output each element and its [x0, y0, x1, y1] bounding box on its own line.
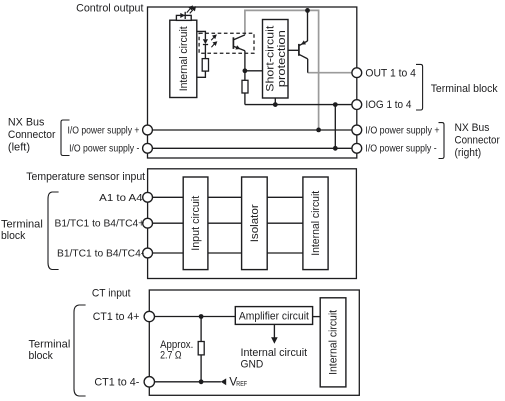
terminal: B-	[143, 248, 153, 258]
wires: input circuit to isolator	[208, 196, 242, 198]
wire: IOG to I/O power -	[334, 105, 336, 149]
svg-text:I/O power supply +: I/O power supply +	[68, 125, 140, 136]
wire: junction down to R2	[244, 71, 246, 81]
node: IOG to power- junction	[333, 102, 338, 107]
svg-text:CT1 to 4+: CT1 to 4+	[93, 311, 140, 323]
temp sensor outer box	[148, 169, 357, 279]
bracket: CT terminal block	[74, 305, 86, 396]
arrow: amplifier to internal circuit GND	[273, 324, 275, 338]
wire: junction to short-circuit box	[245, 70, 263, 72]
svg-text:(left): (left)	[8, 142, 30, 154]
terminal: right I/O power supply -	[352, 143, 362, 153]
wire: R2 to IOG line	[244, 93, 246, 105]
bracket: terminal block right	[416, 64, 423, 110]
svg-text:GND: GND	[241, 358, 264, 370]
svg-text:I/O power supply +: I/O power supply +	[365, 125, 439, 136]
svg-text:Internal circuit: Internal circuit	[241, 347, 308, 359]
terminal: B+	[143, 218, 153, 228]
node: CT+ junction	[199, 314, 204, 319]
opto LED D2	[203, 39, 208, 44]
wire: A row	[148, 196, 184, 198]
resistor R3 (approx 2.7 ohm)	[198, 342, 204, 355]
D2 emission arrows	[211, 35, 216, 47]
svg-text:Terminal: Terminal	[1, 218, 43, 230]
node: Q2/rail junction	[305, 8, 310, 13]
wire: gray OUT wire from transistor collector to OUT terminal	[308, 72, 352, 74]
wire: junction down to R3	[200, 317, 202, 342]
wire: opto LED to R1	[204, 45, 206, 59]
svg-text:B1/TC1 to B4/TC4-: B1/TC1 to B4/TC4-	[57, 249, 144, 260]
terminal: IOG 1 to 4	[352, 100, 362, 110]
svg-text:Internal circuit: Internal circuit	[328, 310, 340, 375]
wire: gray rail from optocoupler collector to I/O power supply +	[245, 10, 319, 129]
node: CT- junction	[199, 379, 204, 384]
bracket: left NX bus	[61, 120, 70, 156]
wire: R3 down to CT- row	[200, 355, 202, 382]
internal circuit box (temp)	[303, 177, 328, 270]
node: Q1 emitter junction	[243, 68, 248, 73]
svg-text:REF: REF	[236, 379, 247, 388]
indicator LED D1	[180, 13, 185, 18]
svg-text:Internal circuit: Internal circuit	[310, 191, 322, 256]
wire: Q2 collector down	[307, 59, 309, 73]
transistor Q2 (PNP)	[288, 49, 298, 51]
svg-text:Control output: Control output	[76, 2, 143, 14]
wire: U1 to opto LED loop (top)	[197, 31, 206, 39]
wire: I/O power supply + row	[148, 129, 357, 131]
resistor R2	[242, 80, 248, 93]
terminal: A1 to A4	[143, 192, 153, 202]
internal circuit box U1	[170, 20, 197, 97]
wire: B+ row	[148, 222, 184, 224]
wire: Q1 emitter down	[244, 51, 246, 71]
terminal: CT1 to 4+	[144, 311, 154, 321]
svg-text:NX Bus: NX Bus	[455, 122, 490, 134]
arrow: VREF	[221, 378, 227, 385]
wires: isolator to internal circuit	[267, 196, 303, 198]
svg-text:Amplifier circuit: Amplifier circuit	[239, 310, 309, 322]
svg-text:Connector: Connector	[8, 129, 56, 141]
wire: amplifier to internal circuit box	[313, 316, 321, 318]
svg-text:Temperature sensor input: Temperature sensor input	[26, 171, 145, 183]
svg-text:(right): (right)	[455, 147, 482, 159]
svg-text:NX Bus: NX Bus	[8, 117, 45, 129]
internal circuit box (CT)	[320, 298, 346, 387]
wire: R1 back to U1 (bottom of loop)	[197, 71, 206, 77]
wire: CT+ row	[149, 316, 235, 318]
phototransistor Q1	[233, 35, 245, 51]
input circuit box	[183, 177, 208, 270]
svg-text:Terminal: Terminal	[29, 338, 71, 350]
D1 emission arrows	[187, 6, 196, 13]
bracket: temp terminal block	[48, 192, 59, 270]
svg-text:I/O power supply -: I/O power supply -	[365, 144, 436, 155]
wire: Q2 emitter up to rail	[307, 10, 309, 41]
terminal: CT1 to 4-	[144, 377, 154, 387]
node: U2/IOG junction	[273, 102, 278, 107]
wire: U2 bottom lead	[274, 98, 276, 105]
terminal: OUT 1 to 4	[352, 68, 362, 78]
svg-text:Terminal block: Terminal block	[431, 83, 498, 95]
short-circuit protection box U2	[263, 20, 289, 99]
terminal: left I/O power supply +	[143, 125, 153, 135]
wire: IOG line	[245, 104, 352, 106]
svg-text:IOG 1 to 4: IOG 1 to 4	[365, 99, 411, 111]
svg-text:2.7 Ω: 2.7 Ω	[160, 349, 181, 361]
svg-text:block: block	[1, 230, 26, 242]
svg-text:Input circuit: Input circuit	[190, 196, 202, 251]
optocoupler dashed box	[199, 33, 254, 53]
node: rail to power+ junction	[316, 127, 321, 132]
svg-text:CT input: CT input	[92, 288, 131, 300]
svg-text:Internal circuit: Internal circuit	[178, 26, 190, 91]
amplifier circuit box	[235, 307, 312, 325]
terminal: right I/O power supply +	[352, 125, 362, 135]
svg-text:protection: protection	[276, 30, 288, 87]
resistor R1	[202, 59, 208, 72]
CT outer box	[149, 290, 359, 395]
wire: I/O power supply - row	[148, 147, 357, 149]
svg-text:Connector: Connector	[455, 135, 501, 147]
svg-text:Short-circuit: Short-circuit	[265, 26, 277, 92]
bracket: NX bus right	[439, 123, 445, 159]
svg-text:OUT 1 to 4: OUT 1 to 4	[365, 67, 416, 79]
svg-text:B1/TC1 to B4/TC4+: B1/TC1 to B4/TC4+	[55, 219, 145, 230]
svg-text:I/O power supply -: I/O power supply -	[69, 144, 139, 155]
control output outer box	[148, 7, 357, 158]
svg-text:block: block	[29, 350, 54, 362]
LED notch on top of U1	[176, 15, 191, 20]
svg-text:Isolator: Isolator	[249, 204, 261, 242]
svg-text:A1 to A4: A1 to A4	[99, 193, 143, 204]
wire: B- row	[148, 252, 184, 254]
svg-text:CT1 to 4-: CT1 to 4-	[94, 377, 139, 389]
wire: CT- row	[149, 381, 221, 383]
terminal: left I/O power supply -	[143, 143, 153, 153]
isolator box	[242, 177, 268, 270]
